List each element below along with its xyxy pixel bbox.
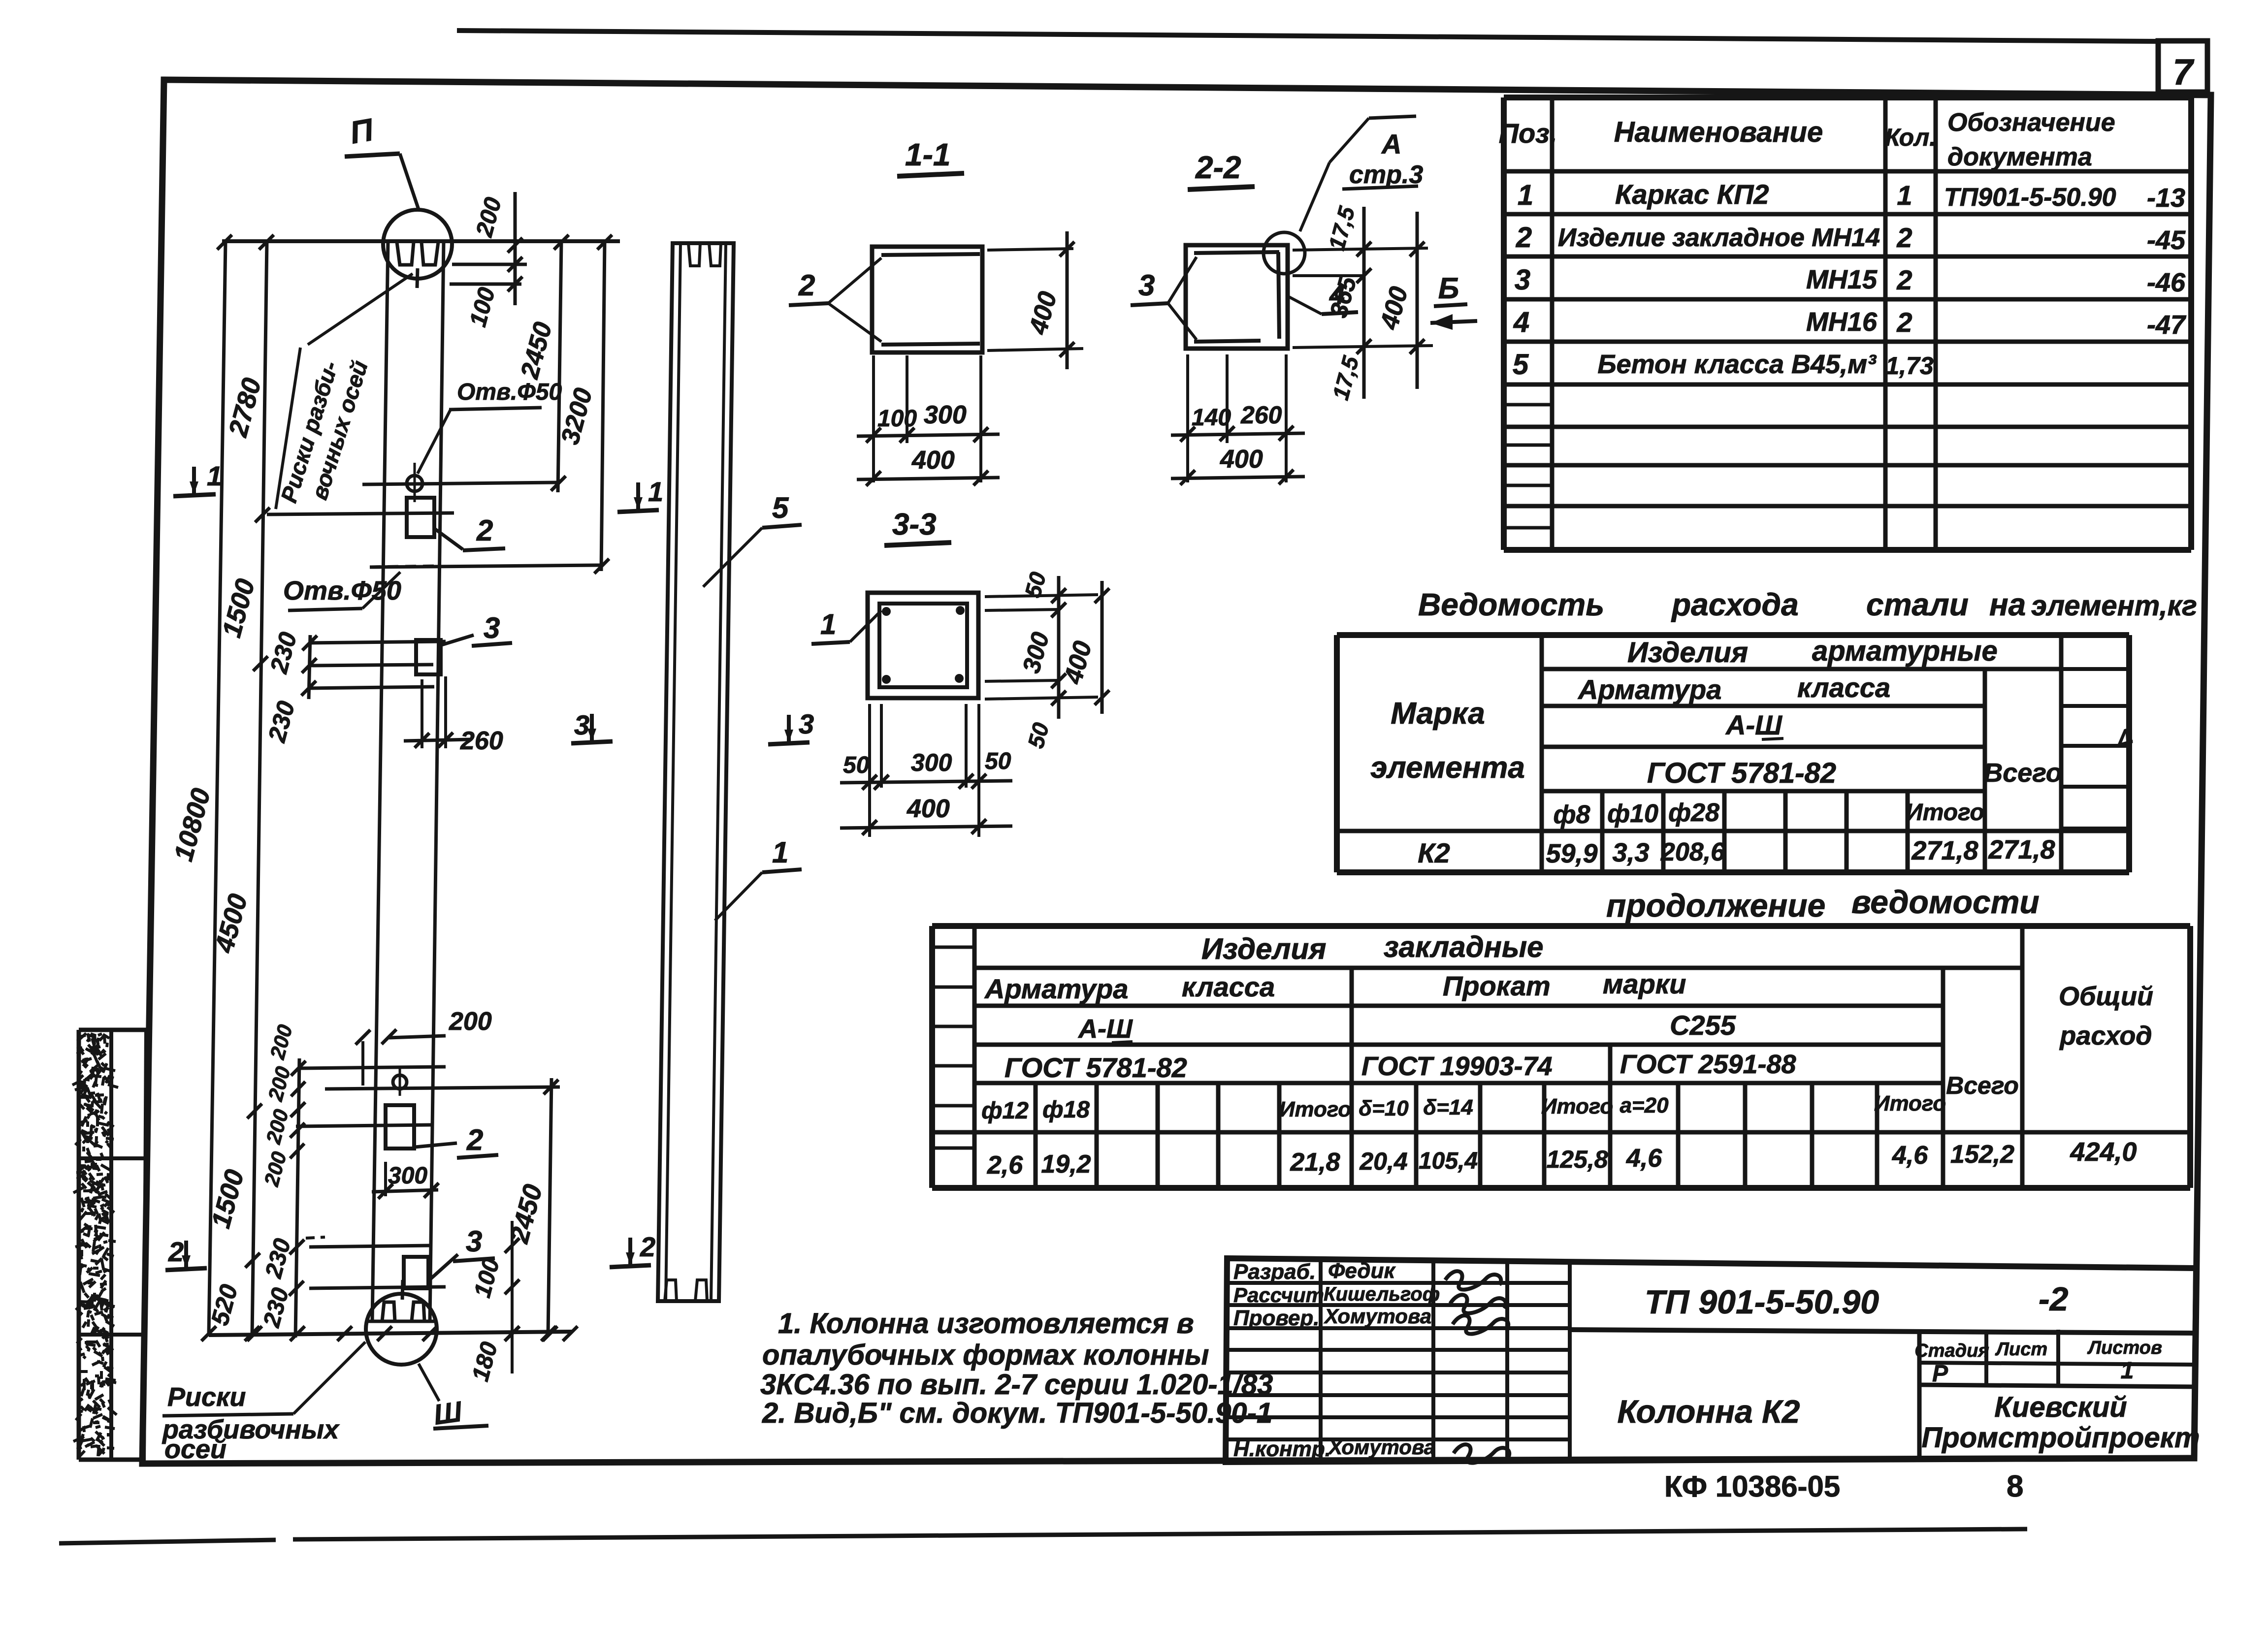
svg-text:Поз.: Поз. xyxy=(1499,118,1557,149)
svg-text:Арматура: Арматура xyxy=(1577,674,1721,705)
chain 10800 xyxy=(209,241,226,1335)
svg-text:А: А xyxy=(1381,128,1401,160)
svg-text:400: 400 xyxy=(1220,445,1263,474)
svg-text:19,2: 19,2 xyxy=(1041,1150,1091,1179)
svg-text:230: 230 xyxy=(259,1285,294,1330)
svg-text:152,2: 152,2 xyxy=(1950,1140,2014,1169)
section mark 1 (mid, left) xyxy=(617,510,659,512)
svg-text:2. Вид,Б" см. докум. ТП901-5-5: 2. Вид,Б" см. докум. ТП901-5-50.90-1 xyxy=(762,1397,1272,1429)
svg-text:осей: осей xyxy=(164,1435,227,1464)
svg-text:230: 230 xyxy=(264,629,302,676)
svg-text:Всего: Всего xyxy=(1946,1072,2019,1099)
svg-text:ГОСТ 5781-82: ГОСТ 5781-82 xyxy=(1647,757,1836,789)
svg-text:ГОСТ 5781-82: ГОСТ 5781-82 xyxy=(1004,1052,1187,1083)
svg-text:МН15: МН15 xyxy=(1806,265,1878,294)
svg-text:50: 50 xyxy=(843,752,870,778)
dim 3200 xyxy=(601,241,605,571)
svg-text:105,4: 105,4 xyxy=(1419,1148,1478,1174)
svg-text:2: 2 xyxy=(1896,222,1912,253)
svg-text:ф18: ф18 xyxy=(1042,1097,1090,1123)
svg-text:Прокат: Прокат xyxy=(1443,970,1551,1001)
svg-text:Листов: Листов xyxy=(2087,1338,2162,1358)
svg-text:Изделие закладное МН14: Изделие закладное МН14 xyxy=(1558,223,1880,252)
signatures squiggles xyxy=(1445,1271,1501,1289)
svg-text:2450: 2450 xyxy=(504,1181,548,1247)
svg-text:стали: стали xyxy=(1866,587,1969,622)
svg-text:3: 3 xyxy=(484,611,500,644)
mid column outline xyxy=(658,243,734,1301)
svg-text:ф28: ф28 xyxy=(1668,798,1719,827)
svg-text:Кол.: Кол. xyxy=(1885,124,1936,151)
svg-text:δ=10: δ=10 xyxy=(1359,1096,1409,1120)
svg-text:5: 5 xyxy=(772,491,789,524)
svg-text:2,6: 2,6 xyxy=(987,1151,1023,1180)
svg-text:Наименование: Наименование xyxy=(1614,116,1823,148)
svg-text:4,6: 4,6 xyxy=(1626,1144,1662,1173)
svg-text:класса: класса xyxy=(1182,971,1275,1002)
embedded plate 2 (lower) xyxy=(386,1105,414,1149)
svg-text:Риски: Риски xyxy=(167,1382,246,1412)
svg-text:Н.контр.: Н.контр. xyxy=(1233,1437,1331,1461)
sec 2-2 dims right xyxy=(1293,248,1428,250)
section 3-3 squares xyxy=(868,593,978,698)
svg-text:Хомутова: Хомутова xyxy=(1328,1436,1435,1459)
svg-text:300: 300 xyxy=(388,1163,427,1189)
top margin line xyxy=(457,31,2159,41)
dim 200 at lower hole xyxy=(361,1041,364,1085)
svg-text:50: 50 xyxy=(985,748,1011,774)
svg-text:-45: -45 xyxy=(2147,225,2186,255)
sidebar hatch speckle xyxy=(83,1170,85,1174)
svg-text:520: 520 xyxy=(206,1281,243,1328)
svg-text:100: 100 xyxy=(877,406,917,432)
steel table 1 grid xyxy=(1337,632,2129,638)
svg-text:ф8: ф8 xyxy=(1554,800,1590,829)
svg-text:2: 2 xyxy=(640,1231,655,1262)
svg-text:марки: марки xyxy=(1603,968,1686,999)
section 2-2 square xyxy=(1186,245,1288,349)
bottom margin line xyxy=(59,1540,276,1543)
svg-text:200: 200 xyxy=(449,1007,492,1036)
title block frame xyxy=(1226,1258,2196,1462)
svg-text:Ведомость: Ведомость xyxy=(1418,587,1604,622)
section 1-1 dim 400 right xyxy=(987,249,1073,250)
svg-text:Колонна К2: Колонна К2 xyxy=(1618,1393,1800,1430)
svg-text:180: 180 xyxy=(467,1339,503,1384)
svg-text:2: 2 xyxy=(798,269,815,302)
svg-text:МН16: МН16 xyxy=(1806,307,1878,337)
svg-text:4: 4 xyxy=(2113,722,2136,756)
svg-text:260: 260 xyxy=(460,727,503,755)
detail circle A xyxy=(1264,232,1305,274)
svg-text:1: 1 xyxy=(820,608,836,640)
svg-text:ф12: ф12 xyxy=(981,1098,1029,1124)
svg-text:3: 3 xyxy=(466,1225,482,1258)
embedded plate 3 (lower) xyxy=(404,1257,428,1288)
svg-text:Провер.: Провер. xyxy=(1233,1306,1319,1330)
lower hole xyxy=(393,1075,407,1089)
svg-text:2450: 2450 xyxy=(515,319,557,382)
svg-text:документа: документа xyxy=(1947,143,2092,171)
svg-text:200: 200 xyxy=(259,1149,291,1189)
embedded plate 2 (upper) xyxy=(407,498,434,537)
svg-text:К2: К2 xyxy=(1418,837,1450,868)
svg-text:2: 2 xyxy=(466,1123,483,1156)
svg-text:424,0: 424,0 xyxy=(2070,1137,2137,1167)
title block right part xyxy=(1570,1330,2195,1333)
svg-text:a=20: a=20 xyxy=(1620,1093,1669,1117)
svg-text:59,9: 59,9 xyxy=(1546,839,1597,868)
svg-text:Общий: Общий xyxy=(2059,982,2153,1011)
svg-text:элемента: элемента xyxy=(1370,751,1525,785)
dim 100/180 bottom right xyxy=(511,1221,514,1373)
svg-text:Федик: Федик xyxy=(1328,1259,1396,1283)
lower hole label xyxy=(370,566,439,567)
left sidebar stamp boxes xyxy=(79,1028,146,1032)
svg-text:3КС4.36 по вып. 2-7 серии 1: 3КС4.36 по вып. 2-7 серии 1.020-1/83 xyxy=(760,1369,1273,1401)
section mark 3 pair xyxy=(571,741,613,743)
svg-text:17,5: 17,5 xyxy=(1324,203,1360,253)
svg-text:1: 1 xyxy=(2121,1358,2134,1384)
dim 200/100 top right xyxy=(452,263,527,266)
svg-text:Отв.Ф50: Отв.Ф50 xyxy=(457,379,562,405)
svg-text:400: 400 xyxy=(911,446,955,475)
svg-text:100: 100 xyxy=(469,1255,505,1300)
svg-text:Б: Б xyxy=(1438,272,1459,305)
mid column top detail xyxy=(688,243,700,266)
svg-text:Бетон класса В45,м³: Бетон класса В45,м³ xyxy=(1597,350,1877,379)
svg-text:300: 300 xyxy=(911,749,952,776)
svg-text:21,8: 21,8 xyxy=(1290,1148,1340,1177)
svg-text:1,73: 1,73 xyxy=(1885,352,1934,380)
svg-text:ТП 901-5-50.90: ТП 901-5-50.90 xyxy=(1645,1283,1879,1321)
section mark 2 left xyxy=(165,1268,207,1270)
svg-text:Всего: Всего xyxy=(1983,758,2062,788)
svg-text:208,6: 208,6 xyxy=(1660,838,1725,866)
svg-text:5: 5 xyxy=(1513,349,1529,381)
svg-text:ведомости: ведомости xyxy=(1851,884,2040,920)
svg-text:125,8: 125,8 xyxy=(1546,1146,1608,1173)
svg-text:271,8: 271,8 xyxy=(1911,836,1978,865)
svg-text:Изделия: Изделия xyxy=(1201,932,1326,965)
svg-text:3: 3 xyxy=(799,708,814,739)
svg-text:3: 3 xyxy=(1515,264,1530,296)
page number box xyxy=(2158,41,2207,92)
svg-text:элемент,кг: элемент,кг xyxy=(2031,590,2197,622)
svg-text:400: 400 xyxy=(907,795,950,823)
bottom detail circle xyxy=(366,1294,437,1365)
svg-text:2: 2 xyxy=(1896,307,1912,338)
svg-text:2: 2 xyxy=(1516,222,1532,254)
svg-text:класса: класса xyxy=(1797,672,1890,703)
chain B (2780/1500/4500/1500/520) xyxy=(252,241,267,1335)
dim 2450 (bottom) xyxy=(548,1078,551,1335)
section mark 2 right xyxy=(610,1265,651,1267)
svg-text:Отв.Ф50: Отв.Ф50 xyxy=(283,576,401,606)
svg-text:Кишельгоф: Кишельгоф xyxy=(1324,1283,1440,1305)
dim 300 lower xyxy=(384,1162,387,1196)
svg-text:Итого: Итого xyxy=(1906,799,1984,826)
svg-text:1: 1 xyxy=(1518,179,1533,211)
svg-text:400: 400 xyxy=(1375,284,1414,333)
bottom master dim line xyxy=(209,1332,572,1335)
svg-text:271,8: 271,8 xyxy=(1988,835,2055,864)
svg-text:2: 2 xyxy=(476,514,493,547)
svg-text:закладные: закладные xyxy=(1384,930,1544,963)
svg-text:С255: С255 xyxy=(1670,1010,1736,1041)
svg-text:2: 2 xyxy=(1896,264,1912,295)
svg-text:-2: -2 xyxy=(2039,1280,2069,1318)
section 1-1 square xyxy=(872,247,982,352)
svg-text:расход: расход xyxy=(2059,1021,2152,1051)
svg-text:Арматура: Арматура xyxy=(984,973,1128,1004)
chain C upper 230/230 xyxy=(309,635,310,699)
svg-text:продолжение: продолжение xyxy=(1606,887,1825,924)
svg-text:А-Ш: А-Ш xyxy=(1725,709,1782,740)
svg-text:8: 8 xyxy=(2007,1469,2023,1503)
svg-text:17,5: 17,5 xyxy=(1328,353,1364,403)
svg-text:3: 3 xyxy=(574,709,589,740)
upper hole Otv50 xyxy=(407,476,422,491)
steel table 2 grid xyxy=(932,923,2190,929)
specification table grid xyxy=(1504,95,2191,100)
svg-text:ф10: ф10 xyxy=(1607,799,1658,828)
svg-text:3-3: 3-3 xyxy=(892,508,937,542)
svg-text:2780: 2780 xyxy=(223,375,267,441)
column bottom fork marks xyxy=(366,1320,436,1323)
svg-text:200: 200 xyxy=(265,1022,297,1062)
svg-text:δ=14: δ=14 xyxy=(1423,1095,1473,1119)
svg-text:1. Колонна изготовляется в: 1. Колонна изготовляется в xyxy=(778,1308,1194,1340)
svg-text:300: 300 xyxy=(1017,629,1055,676)
chain C lower 200x4 + 230/230 xyxy=(295,1058,299,1338)
svg-text:Итого: Итого xyxy=(1874,1091,1946,1116)
svg-text:3: 3 xyxy=(1138,269,1155,302)
svg-text:2: 2 xyxy=(168,1236,184,1267)
svg-text:Каркас КП2: Каркас КП2 xyxy=(1615,179,1769,210)
svg-text:Промстройпроект: Промстройпроект xyxy=(1921,1422,2200,1454)
svg-text:Рассчит: Рассчит xyxy=(1233,1283,1324,1307)
svg-text:1-1: 1-1 xyxy=(905,137,951,172)
svg-text:200: 200 xyxy=(471,194,507,240)
svg-text:Киевский: Киевский xyxy=(1994,1391,2127,1423)
svg-text:Лист: Лист xyxy=(1995,1339,2047,1360)
svg-text:А-Ш: А-Ш xyxy=(1077,1014,1133,1044)
sec 3-3 dims below xyxy=(868,704,871,837)
svg-text:200: 200 xyxy=(261,1107,293,1147)
svg-text:Итого: Итого xyxy=(1541,1094,1613,1118)
sec 2-2 dims below xyxy=(1186,354,1189,482)
svg-text:7: 7 xyxy=(2172,52,2195,93)
svg-text:260: 260 xyxy=(1240,401,1282,429)
svg-text:-46: -46 xyxy=(2147,268,2186,297)
svg-text:400: 400 xyxy=(1059,638,1098,687)
svg-text:опалубочных формах коло: опалубочных формах колонны xyxy=(762,1339,1209,1371)
dim 260 xyxy=(421,679,423,748)
svg-text:4: 4 xyxy=(1513,306,1529,338)
svg-text:Хомутова: Хомутова xyxy=(1324,1305,1431,1328)
dashes at 230 level xyxy=(306,1237,325,1238)
svg-text:ГОСТ 2591-88: ГОСТ 2591-88 xyxy=(1620,1050,1796,1079)
svg-text:1: 1 xyxy=(648,476,663,507)
svg-text:Разраб.: Разраб. xyxy=(1233,1260,1316,1284)
svg-text:Р: Р xyxy=(1932,1361,1948,1387)
svg-text:П: П xyxy=(347,112,377,151)
svg-text:на: на xyxy=(1989,587,2026,622)
svg-text:400: 400 xyxy=(1024,288,1063,338)
svg-text:Обозначение: Обозначение xyxy=(1947,108,2115,137)
svg-text:ТП901-5-50.90: ТП901-5-50.90 xyxy=(1944,183,2116,212)
mid column bottom detail xyxy=(665,1280,677,1301)
svg-text:Стадия: Стадия xyxy=(1914,1341,1989,1361)
svg-text:300: 300 xyxy=(924,401,967,429)
svg-text:ГОСТ 19903-74: ГОСТ 19903-74 xyxy=(1361,1052,1553,1081)
column top extension line xyxy=(222,239,620,243)
detail mark Sh (bottom) xyxy=(419,1364,439,1401)
svg-text:100: 100 xyxy=(465,285,500,329)
svg-text:1: 1 xyxy=(207,460,222,491)
sheet frame xyxy=(142,80,2211,1464)
svg-text:50: 50 xyxy=(1023,720,1054,751)
svg-text:-13: -13 xyxy=(2147,183,2185,213)
svg-text:2-2: 2-2 xyxy=(1195,150,1241,185)
column top fork marks xyxy=(397,242,414,265)
svg-text:Изделия: Изделия xyxy=(1627,637,1748,669)
section mark 1-1 left xyxy=(173,494,216,496)
level lines xyxy=(267,513,454,514)
top detail circle xyxy=(383,210,452,279)
svg-text:-47: -47 xyxy=(2147,310,2187,340)
svg-text:1: 1 xyxy=(772,836,788,869)
svg-text:20,4: 20,4 xyxy=(1359,1148,1407,1175)
svg-text:10800: 10800 xyxy=(168,785,216,864)
svg-text:200: 200 xyxy=(263,1064,295,1104)
svg-text:Марка: Марка xyxy=(1391,697,1485,731)
svg-text:Итого: Итого xyxy=(1279,1097,1351,1121)
svg-text:расхода: расхода xyxy=(1671,587,1799,622)
svg-text:арматурные: арматурные xyxy=(1812,635,1998,667)
column edges xyxy=(372,241,388,1321)
embedded plate 3 (upper) xyxy=(416,640,441,674)
svg-text:230: 230 xyxy=(260,1236,296,1281)
svg-text:1500: 1500 xyxy=(217,576,260,641)
svg-text:140: 140 xyxy=(1192,405,1231,431)
svg-text:3,3: 3,3 xyxy=(1612,838,1649,867)
svg-text:КФ 10386-05: КФ 10386-05 xyxy=(1664,1470,1840,1503)
rebar dots xyxy=(882,607,891,616)
dim 2450 (top) xyxy=(558,241,561,492)
svg-text:3200: 3200 xyxy=(556,385,598,447)
svg-text:230: 230 xyxy=(262,698,300,745)
sec 3-3 dims right xyxy=(985,595,1098,597)
svg-text:4,6: 4,6 xyxy=(1892,1141,1928,1170)
svg-text:1: 1 xyxy=(1897,180,1912,211)
section 1-1 dims below xyxy=(872,355,875,482)
